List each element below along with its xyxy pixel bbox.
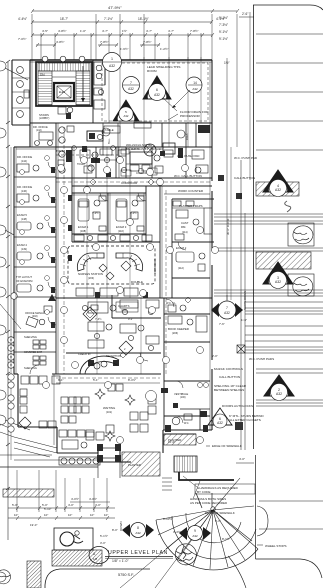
corridor dashed centerlines (56, 127, 212, 374)
bowtie marker 7/A32 right mid (211, 295, 243, 358)
svg-text:A32: A32 (192, 534, 198, 538)
svg-text:5750 S.F.: 5750 S.F. (118, 573, 134, 577)
planter side steps (162, 478, 172, 490)
door pochés vestibule (161, 388, 168, 393)
sidewalk line above planters (0, 454, 52, 456)
svg-text:DOORS AUTOLOCKS: DOORS AUTOLOCKS (222, 404, 253, 408)
svg-text:A32: A32 (217, 421, 223, 425)
waiting star markers (95, 389, 105, 399)
reception curved desk (80, 356, 119, 374)
dark door upper band (178, 148, 183, 158)
stair block outer (36, 62, 92, 106)
keynote bubbles waiting west (8, 374, 14, 432)
svg-text:9'-1½": 9'-1½" (219, 37, 228, 41)
reception desk inner chairs (101, 361, 107, 367)
tree 2 (293, 277, 313, 296)
svg-text:9'-3": 9'-3" (128, 317, 133, 321)
pencil mark 8 (285, 201, 291, 212)
exterior left wall upper (29, 60, 31, 147)
svg-text:4'-4½": 4'-4½" (18, 17, 27, 21)
svg-text:4'-7": 4'-7" (168, 29, 174, 33)
svg-text:WHEEL STOPS: WHEEL STOPS (265, 544, 287, 548)
svg-text:(144): (144) (21, 160, 27, 163)
svg-text:1/8" = 1'-0": 1/8" = 1'-0" (112, 559, 129, 563)
SECTION: rooms interior (0, 56, 212, 476)
svg-text:7'-3½": 7'-3½" (219, 23, 228, 27)
dim row1 texts (18, 17, 225, 21)
svg-text:18'-1½": 18'-1½" (138, 17, 149, 21)
exam2 bottom (172, 277, 210, 279)
svg-text:5'-0": 5'-0" (12, 503, 18, 507)
planter strip (164, 433, 196, 435)
ramp arcs (156, 520, 258, 570)
dim line row 0 (32, 10, 237, 12)
svg-text:RM.: RM. (181, 225, 186, 229)
svg-text:10": 10" (68, 513, 72, 517)
upper band wall (14, 146, 212, 148)
sidewalk line y460 (14, 459, 100, 461)
dim row3 texts (18, 37, 168, 51)
toilets divider (164, 415, 210, 417)
svg-text:7'-8½": 7'-8½" (100, 40, 108, 44)
svg-text:BOOK KEEPER: BOOK KEEPER (168, 327, 189, 331)
svg-text:ROOM: ROOM (147, 69, 157, 73)
bottom-left vertical hatch strip (27, 561, 41, 588)
svg-text:A32: A32 (128, 87, 134, 91)
svg-text:A32: A32 (276, 392, 282, 396)
bowtie marker A32 2 (179, 526, 211, 541)
svg-text:4'-8½": 4'-8½" (58, 29, 66, 33)
bay seating (59, 430, 67, 437)
secondary curb vertical (240, 160, 242, 450)
stair lower fixtures (58, 107, 66, 114)
svg-text:1'-6": 1'-6" (241, 318, 247, 322)
xray band wall (56, 177, 212, 179)
svg-text:1'-2½": 1'-2½" (160, 47, 168, 51)
svg-text:TALL: TALL (108, 138, 111, 144)
door swings left rooms (48, 162, 56, 325)
dark switch square (218, 175, 224, 181)
svg-text:OF EXAM RM: OF EXAM RM (16, 279, 32, 283)
svg-text:MUZAK CONTROLS: MUZAK CONTROLS (214, 367, 243, 371)
svg-text:(205): (205) (121, 309, 127, 312)
parking bottom edge lines (259, 500, 323, 502)
wc room fixtures (172, 417, 180, 425)
svg-text:4'-0½": 4'-0½" (89, 497, 97, 501)
dim line row 1 (32, 21, 212, 23)
parking stall lines (256, 34, 323, 150)
left hatch strip (3, 489, 54, 497)
toilet rooms mid fixtures (59, 151, 65, 157)
door swings exam rooms (30, 193, 186, 423)
bookkeeper walls (164, 313, 210, 315)
vertical extension lines from dims to building (32, 14, 212, 60)
svg-text:9'-1": 9'-1" (215, 519, 221, 523)
dim row above waiting (56, 382, 160, 384)
misc fixtures top band (130, 165, 139, 171)
nurses C-desk left (77, 253, 104, 271)
svg-text:A32: A32 (135, 531, 141, 535)
svg-text:30'-0" R.O.W.: 30'-0" R.O.W. (226, 218, 230, 235)
svg-text:DR. OFFICE: DR. OFFICE (17, 185, 32, 189)
svg-text:A32: A32 (154, 93, 160, 97)
vestibule walls (97, 445, 99, 462)
svg-text:15'-0": 15'-0" (168, 440, 175, 444)
east rooms west wall (163, 298, 165, 430)
hatched sidewalk band 1 (256, 182, 299, 196)
svg-text:10": 10" (44, 513, 48, 517)
svg-text:14: 14 (193, 81, 197, 85)
corridor east wall (71, 147, 73, 242)
nurses station dashed border (68, 246, 155, 284)
svg-text:5'-1": 5'-1" (93, 378, 99, 382)
svg-text:A32: A32 (275, 280, 281, 284)
waiting more seats (108, 384, 115, 391)
svg-text:1'-0": 1'-0" (80, 29, 86, 33)
dims near wheelchair (44, 497, 118, 545)
svg-text:(149): (149) (21, 248, 27, 251)
upper room dashed outline (102, 63, 208, 121)
table text (104, 126, 120, 133)
svg-text:8'-1½": 8'-1½" (222, 537, 230, 541)
dashed property corridor bottom (56, 377, 160, 379)
svg-text:(110): (110) (118, 229, 124, 233)
cast room top (172, 198, 214, 200)
triangle marker 6/A32 top (143, 76, 171, 99)
dim row2 ticks (31, 33, 214, 37)
waiting west wall chairs (20, 389, 27, 396)
svg-text:9: 9 (194, 529, 196, 533)
exterior stair treads (174, 456, 197, 472)
left walkway diagonals (0, 424, 57, 457)
exterior right wall mid (211, 191, 213, 251)
switch square 2 (235, 422, 243, 430)
svg-text:10": 10" (14, 513, 18, 517)
exam partition fixtures (99, 196, 106, 201)
left vertical dim line (7, 62, 9, 540)
svg-text:PLANTER: PLANTER (128, 463, 141, 467)
sidewalk lines group 2 (214, 248, 323, 406)
dim row2 texts (42, 29, 198, 33)
waiting diamond chair (19, 417, 31, 429)
stair rails to fan (196, 493, 202, 508)
curb double vertical line (249, 12, 251, 180)
nurses chairs diamonds (99, 264, 107, 272)
svg-text:ELEV: ELEV (59, 91, 66, 94)
svg-text:CHARTS: CHARTS (118, 304, 130, 308)
SECTION: top dimension lines (18, 5, 254, 310)
svg-text:A32: A32 (124, 114, 129, 118)
left dim ticks (6, 60, 10, 490)
planter 2 bottom (122, 452, 160, 476)
svg-text:CHECK IN: CHECK IN (78, 352, 91, 356)
bottom wall right of vestibule (120, 461, 131, 463)
guardrail thick L (179, 472, 234, 480)
svg-text:BETWEEN SHELVES: BETWEEN SHELVES (214, 388, 244, 392)
svg-text:10": 10" (90, 513, 94, 517)
left room door tags (20, 156, 50, 315)
svg-text:EXAM 4: EXAM 4 (17, 243, 27, 247)
svg-text:4'-0": 4'-0" (68, 503, 74, 507)
dim line row 2 (32, 34, 212, 36)
svg-text:W.C. PUSH PAD: W.C. PUSH PAD (177, 154, 200, 158)
svg-text:EDGE OF SIDEWALK: EDGE OF SIDEWALK (212, 444, 242, 448)
vestibule dark jambs (97, 444, 103, 451)
curb bottom corner (256, 559, 323, 578)
svg-text:ALL EXTER CLOSETS: ALL EXTER CLOSETS (229, 418, 261, 422)
svg-text:7: 7 (226, 306, 228, 310)
waiting bottom wall (18, 426, 57, 428)
upper rooms divider (92, 60, 94, 123)
business office desks (88, 302, 108, 313)
svg-text:FILES: FILES (187, 133, 189, 140)
svg-text:PROCESSOR: PROCESSOR (180, 114, 201, 118)
SECTION: markers (43, 53, 244, 444)
planter strip hatched (164, 434, 196, 445)
diagonal leader (0, 304, 21, 329)
exam2 (176, 252, 194, 262)
exterior right wall upper (211, 60, 213, 181)
small tag circles scattered (43, 157, 219, 444)
circle marker A32 top (103, 53, 122, 72)
small tree bottom-left margin (0, 570, 10, 584)
svg-text:W.C.: W.C. (184, 422, 190, 425)
svg-text:7'-3½: 7'-3½ (92, 211, 99, 215)
landing line (52, 76, 76, 78)
svg-text:2'-0": 2'-0" (212, 354, 218, 358)
top lot edge with rounded corner (253, 5, 323, 10)
tree planter box 2 (288, 274, 314, 296)
svg-text:8'-10½": 8'-10½" (163, 517, 173, 521)
svg-text:1½": 1½" (122, 29, 127, 33)
closet fixtures right of stairs (94, 62, 105, 85)
curb bump (257, 506, 268, 536)
bowtie marker 8/A32 (122, 523, 154, 538)
left grid bubbles (0, 61, 6, 582)
svg-text:8'-1": 8'-1" (58, 378, 64, 382)
svg-text:10": 10" (104, 513, 108, 517)
svg-text:19'-0": 19'-0" (30, 523, 37, 527)
business bottom (66, 352, 161, 354)
elevator core dark walls (54, 83, 74, 101)
svg-text:EXAM 2: EXAM 2 (176, 246, 187, 250)
ramp outer edge to bottom (228, 556, 246, 588)
svg-text:(206): (206) (172, 331, 178, 335)
title ellipse (89, 547, 109, 564)
triangle marker 3/A32 (263, 262, 293, 289)
svg-text:(142): (142) (36, 129, 42, 132)
svg-text:4'-7": 4'-7" (146, 29, 152, 33)
svg-text:4'-0": 4'-0" (239, 457, 245, 461)
note leaders (183, 476, 197, 487)
svg-text:47'-9½": 47'-9½" (108, 5, 122, 10)
dim ticks bottom (16, 506, 109, 520)
exam top y193 (72, 192, 146, 194)
upper mid rooms fixtures (80, 150, 90, 158)
dark door wedge exam5 (48, 294, 56, 301)
cabinets below nurses (76, 288, 94, 296)
corridor south (72, 185, 212, 187)
stair direction arrow (82, 66, 84, 102)
hatched crosswalk bottom left (52, 550, 102, 566)
waiting top row (74, 397, 81, 404)
planter row under waiting (59, 457, 100, 465)
svg-text:7'-0½": 7'-0½" (18, 37, 26, 41)
planter block right bottom (162, 430, 164, 453)
svg-text:EXAM 5: EXAM 5 (17, 213, 27, 217)
svg-text:A32: A32 (275, 188, 281, 192)
svg-text:7'-6": 7'-6" (219, 322, 225, 326)
sidewalk edge lines group (214, 214, 323, 224)
stair treads upper run (38, 63, 90, 71)
central band extra clutter (72, 146, 165, 178)
xray room2 (130, 152, 152, 164)
upper-left annex walls (12, 59, 30, 61)
ramp fan radiating lines (156, 478, 258, 569)
exterior left wall lower (13, 147, 15, 374)
xray room table (134, 122, 151, 128)
right dim vertical line (236, 14, 238, 147)
exam bottom (72, 233, 146, 235)
sidewalk extension verticals (17, 470, 107, 512)
tree planter box 1 (288, 223, 314, 246)
junction box square (237, 345, 245, 353)
svg-text:3'-0": 3'-0" (100, 541, 106, 545)
svg-text:W.C. PUSH PAD: W.C. PUSH PAD (234, 156, 258, 160)
waiting sofas low-left (39, 421, 47, 428)
svg-text:SHELVING: SHELVING (24, 366, 37, 370)
corridor2 west wall (159, 186, 161, 298)
reception chairs (94, 363, 100, 369)
nurses C-desk right (116, 253, 143, 271)
svg-text:7: 7 (130, 81, 132, 85)
svg-text:(101): (101) (106, 410, 112, 414)
svg-text:1: 1 (111, 57, 113, 61)
svg-text:(148): (148) (21, 218, 27, 221)
svg-text:(112): (112) (178, 266, 184, 270)
double wall shadow lines (16, 60, 212, 445)
svg-text:TABLE: TABLE (105, 128, 114, 132)
svg-text:9'-1½": 9'-1½" (219, 16, 228, 20)
svg-text:A32: A32 (224, 311, 230, 315)
svg-text:DR. OFFICE: DR. OFFICE (17, 155, 32, 159)
SECTION: left margin (0, 60, 30, 582)
svg-text:18'-7": 18'-7" (60, 17, 68, 21)
svg-text:7'-1½": 7'-1½" (104, 17, 113, 21)
triangle marker 4/A32 (263, 170, 293, 197)
exam double wall lines (72, 194, 146, 196)
SECTION: bottom site (0, 374, 323, 588)
svg-text:(203): (203) (88, 276, 94, 280)
svg-text:5'-1½": 5'-1½" (100, 534, 108, 538)
svg-text:COVERED ENT: COVERED ENT (24, 351, 43, 354)
upper-right small room dividers (161, 123, 163, 147)
svg-text:A32: A32 (109, 64, 115, 68)
svg-text:(108): (108) (80, 229, 86, 233)
svg-text:2'-6": 2'-6" (242, 12, 248, 16)
cast room bottom (172, 241, 214, 243)
leader diagonals from bubbles (5, 68, 28, 80)
svg-text:TYP LAYOUT: TYP LAYOUT (16, 275, 32, 279)
bottom right building edge (163, 429, 212, 431)
exterior top wall (30, 59, 212, 61)
waiting sofas right (130, 412, 138, 420)
dim row3 line segments (36, 44, 56, 46)
svg-text:4'-8½": 4'-8½" (56, 40, 64, 44)
circle marker 7/A32 (123, 77, 140, 94)
long extension verticals through rooms (87, 147, 141, 374)
svg-text:DOUBLE: DOUBLE (131, 280, 143, 284)
wheelchair box (54, 528, 93, 550)
more door tags diamonds (148, 179, 154, 185)
stair treads left run (38, 71, 52, 105)
svg-text:X-RAY: X-RAY (131, 147, 139, 151)
fan long construction lines (120, 510, 213, 588)
svg-text:8'-0": 8'-0" (112, 528, 118, 532)
svg-text:4'-7": 4'-7" (102, 29, 108, 33)
desk band dark element (87, 131, 103, 141)
svg-text:(202): (202) (32, 315, 38, 318)
door pochés left corridor (51, 167, 72, 328)
upper-left annex fixtures (17, 67, 24, 74)
tree bottom center (175, 544, 196, 565)
exam3 room (116, 199, 127, 221)
svg-text:8'-4½": 8'-4½" (128, 378, 136, 382)
svg-text:SHELVING: SHELVING (24, 335, 37, 339)
svg-text:NURSES STATION: NURSES STATION (78, 272, 103, 276)
svg-text:W.C. PUSH PADS: W.C. PUSH PADS (249, 357, 274, 361)
svg-text:9'-3½: 9'-3½ (130, 211, 137, 215)
waiting corner sofa top (21, 376, 29, 384)
svg-text:DN: DN (40, 73, 45, 77)
svg-text:W.C. CALL BUTTON: W.C. CALL BUTTON (174, 174, 202, 178)
keynote bubble column (8, 293, 18, 369)
svg-text:5'-10": 5'-10" (44, 507, 51, 511)
svg-text:(LOBBY): (LOBBY) (39, 116, 50, 120)
sidewalk top edge left (0, 466, 98, 468)
svg-text:1/8: 1/8 (93, 557, 98, 561)
svg-text:1'-6½": 1'-6½" (120, 47, 128, 51)
nurses zone bottom / business top (56, 297, 212, 299)
svg-text:7'-4½: 7'-4½ (95, 317, 102, 321)
upper room extension lines (109, 57, 201, 147)
circle marker 14/A32 (186, 77, 202, 93)
small dim arrow mid (226, 58, 228, 300)
svg-text:4'-5": 4'-5" (42, 29, 48, 33)
guardrails note box (190, 486, 239, 505)
svg-text:6: 6 (156, 88, 158, 92)
svg-text:W.C. CL.: W.C. CL. (166, 301, 177, 305)
reception dark chairs (88, 360, 94, 366)
svg-text:BY CODE: BY CODE (197, 490, 210, 494)
seating bay (56, 427, 58, 453)
svg-text:A32: A32 (192, 87, 198, 91)
left room dividers (14, 177, 56, 352)
triangle marker 5/A32 (113, 100, 139, 121)
triangle marker 2/A32 (264, 375, 294, 401)
svg-text:7'-8½": 7'-8½" (143, 40, 151, 44)
svg-text:8: 8 (137, 526, 139, 530)
svg-text:AS PER CODE REQUIRED: AS PER CODE REQUIRED (190, 501, 228, 505)
svg-text:7'-8½": 7'-8½" (190, 29, 198, 33)
interior main verticals (56, 60, 172, 430)
svg-text:(146): (146) (21, 190, 27, 193)
corridor west wall (55, 123, 57, 374)
right stacked dims 9'-1" column (219, 12, 248, 65)
stair treads right run (76, 71, 90, 105)
corridor2 east wall (171, 199, 173, 298)
svg-text:CORRIDOR: CORRIDOR (153, 259, 157, 274)
